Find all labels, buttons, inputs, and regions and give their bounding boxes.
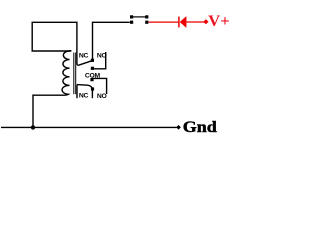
svg-text:NO: NO xyxy=(97,93,107,100)
svg-text:Gnd: Gnd xyxy=(183,119,217,136)
svg-text:NO: NO xyxy=(97,52,107,59)
svg-text:NC: NC xyxy=(79,92,89,99)
svg-text:V+: V+ xyxy=(208,13,230,30)
svg-text:NC: NC xyxy=(79,52,89,59)
svg-text:COM: COM xyxy=(85,72,101,79)
